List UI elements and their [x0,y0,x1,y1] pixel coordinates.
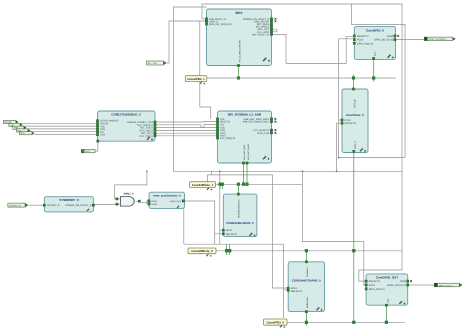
flag TDO input [19,132,34,136]
tag CoreAHBLite_1 [190,182,216,191]
svg-text:AHB_MST_MMIO: AHB_MST_MMIO [247,144,250,160]
flag XTL oscillator input [147,61,167,65]
bus CoreAPB3_0 line [287,321,405,323]
svg-text:reset_synchronizer_0: reset_synchronizer_0 [153,194,181,197]
svg-text:XTL_CLK: XTL_CLK [148,62,158,65]
svg-text:HRESETN: HRESETN [291,290,303,293]
svg-text:CoreGPIO_OUT: CoreGPIO_OUT [376,276,399,280]
svg-text:HCLK: HCLK [226,229,233,232]
svg-text:CoreGPIO_0: CoreGPIO_0 [366,29,384,33]
svg-text:TDO: TDO [20,132,25,135]
block COREAHBLSRAM_0 [222,193,257,237]
block SYSRESET_0 [43,197,94,212]
svg-text:MSS: MSS [236,11,243,15]
svg-text:CoreAHBLite_0: CoreAHBLite_0 [191,249,213,253]
junction dots on CoreAHBLite_1 bus [219,183,249,186]
wire DEVRST to SYSRESET [29,204,45,206]
flag TDI input [17,129,31,133]
green net vblock top to APB bus [353,75,355,90]
svg-text:PRESETN: PRESETN [345,122,357,125]
svg-text:GPIO_IN(31:0): GPIO_IN(31:0) [357,42,373,45]
flag TMS input [13,126,27,130]
svg-text:APBmaster: APBmaster [306,297,309,308]
wire clock spine and vblock PCLK feed [339,39,405,158]
svg-text:APB_bif: APB_bif [354,99,357,108]
green net CoreGPIO_0 bottom to APB bus [373,59,375,81]
svg-text:PRESETN: PRESETN [369,280,381,283]
green stubs bus0 [227,245,230,256]
pencil icon [316,307,320,311]
pencil icon [249,232,253,236]
svg-text:APB3: APB3 [400,280,407,283]
flag DEVRST_N input [8,203,28,207]
green net CoreGPIO_OUT bottom to APB3_0 bus [385,305,387,322]
green net vblock bottom to APB3_0 bus [353,153,355,323]
wire reset to SRAM HRESETN [185,201,224,234]
block MIV_RV32IMA_L1_AHB [216,111,276,164]
block CoreGPIO_0 [353,27,399,60]
wire SRAM HCLK feed [220,171,224,244]
svg-text:GPIO_OUT(31:0): GPIO_OUT(31:0) [374,39,393,42]
wire top loop from MSS left port [202,4,402,281]
svg-text:INT: INT [387,298,390,302]
junction dots on CoreAHBLite_0 bus [225,249,355,252]
svg-text:AHB_MST_MEM: AHB_MST_MEM [243,144,246,160]
flag TDO output bottom of jtag [81,149,95,153]
wire bus1-bus0 link [272,175,288,288]
pencil icon [387,54,391,58]
wire clock branch to MIV CLK [200,21,211,119]
block vblock CoreTimer_0 [341,88,368,153]
wire AND2 input A loop [115,171,147,199]
svg-text:COREAHBLSRAM_0: COREAHBLSRAM_0 [226,221,254,225]
flag TRSTB input [3,120,18,124]
wire GPIO_OUT2 flag [408,284,435,286]
block reset_synchronizer_0 [148,192,185,208]
svg-text:GPIO_IN(31:0): GPIO_IN(31:0) [369,288,385,291]
pencil icon [360,148,364,152]
block CoreGPIO_OUT [365,274,412,306]
block MSS (top big block) [205,9,276,67]
bus CoreAPB3_1 line [207,77,396,79]
svg-text:AHBslave: AHBslave [306,267,309,277]
junction dots on clock/reset trunks [146,157,339,172]
svg-text:TDO: TDO [100,134,105,137]
flag GPIO_OUT(31:0) output [424,37,456,41]
svg-text:MSS_INT_M2F(15:0): MSS_INT_M2F(15:0) [209,23,232,26]
svg-text:MIV_RV32IMA_L1_AHB: MIV_RV32IMA_L1_AHB [228,113,262,117]
flag GPIO_OUT_2 output [434,283,462,287]
svg-text:DEVRST_N: DEVRST_N [47,204,60,207]
pencil icon [147,136,151,140]
svg-text:M2F_RESET_N: M2F_RESET_N [252,33,269,36]
svg-text:DEVRST_N: DEVRST_N [9,204,21,207]
green net MSS to APB bus [238,66,240,79]
wire reset trunk down to AHBTOAPB3 [184,208,288,318]
block COREAHBTOAPB3_0 [287,261,324,313]
flag TCK input [9,123,23,127]
svg-text:CoreAPB3_0: CoreAPB3_0 [266,321,284,325]
green stubs bus1 [220,184,222,189]
svg-text:EXT_IRQ(5:0): EXT_IRQ(5:0) [220,137,235,140]
svg-text:JTAG_TDO: JTAG_TDO [257,132,269,135]
svg-text:CoreAHBLite_1: CoreAHBLite_1 [192,183,214,187]
block COREJTAGDEBUG_0 [96,111,156,142]
bus CoreAHBLite_0 line [216,250,402,252]
green net MIV masters to AHB bus [244,163,248,184]
svg-text:AND2_0: AND2_0 [124,192,135,195]
wire AND2 out to rs [141,201,150,204]
svg-text:PRESETN: PRESETN [357,35,369,38]
svg-text:PCLK: PCLK [357,39,364,42]
svg-text:AHBSlaveInterface: AHBSlaveInterface [238,199,241,218]
wire MSS right U loop [272,29,277,32]
wire COREJTAGDEBUG to MIV jtag [155,122,218,136]
svg-text:GPIO_OUT_2: GPIO_OUT_2 [439,284,454,287]
green net SRAM slave to AHB bus [237,184,239,194]
svg-text:HRESETN: HRESETN [226,233,238,236]
wire vblock PRESETN feed [337,123,343,171]
svg-text:APB_0: APB_0 [354,141,357,149]
bus CoreAHBLite_1 line [216,183,303,185]
svg-text:CoreTimer_0: CoreTimer_0 [346,113,364,117]
wire nested loop left vertical [174,7,402,171]
svg-text:TGT_TDO_0: TGT_TDO_0 [139,135,153,138]
green net AHBTOAPB3 top to bus0 [305,251,307,262]
pencil icon [263,57,267,61]
wire MSS to CoreGPIO_0 PRESETN [272,34,354,63]
wire SYSRESET out to AND2 [93,204,118,206]
svg-text:PCLK: PCLK [369,284,376,287]
junction dots on CoreAPB3_0 bus [305,321,388,324]
svg-text:APB3: APB3 [387,35,394,38]
wire jtag flags to COREJTAGDEBUG [18,123,97,134]
tag CoreAHBLite_0 [188,248,216,257]
wire right reset branch [351,4,405,158]
svg-text:COREAHBTOAPB3_0: COREAHBTOAPB3_0 [292,279,321,283]
pencil icon [399,301,403,305]
wire COREJTAGDEBUG bottom TDO flag [95,141,98,151]
svg-text:CoreAPB3_1: CoreAPB3_1 [187,77,205,81]
svg-text:AHB_MST_MMIO_HSEL: AHB_MST_MMIO_HSEL [242,121,269,124]
tag CoreAPB3_0 [264,319,288,328]
svg-text:POWER_ON_RESET_N: POWER_ON_RESET_N [65,204,92,207]
svg-text:reset_sync: reset_sync [170,200,182,203]
svg-text:FIC_0_APB_MASTER: FIC_0_APB_MASTER [238,40,241,62]
svg-text:TDO: TDO [85,150,90,153]
junction dots on CoreAPB3_1 bus [237,77,375,80]
svg-text:SYSRESET_0: SYSRESET_0 [59,198,79,202]
wire mid vertical [302,171,366,285]
gate AND2_0 [116,192,141,206]
svg-text:COREJTAGDEBUG_0: COREJTAGDEBUG_0 [111,112,141,116]
wire GPIO_OUT flag [396,39,425,41]
svg-text:GPIO_OUT(31:0): GPIO_OUT(31:0) [429,38,446,41]
tag CoreAPB3_1 [185,76,207,85]
wire xtal to MSS [167,21,207,63]
green net AHBTOAPB3 bottom to APB3_0 bus [305,312,307,326]
svg-text:reset: reset [152,203,158,206]
wire secondary trunk [208,171,273,181]
pencil icon [263,156,267,160]
svg-text:INT: INT [374,52,377,56]
svg-text:GPIO_OUT(31:0): GPIO_OUT(31:0) [387,284,406,287]
